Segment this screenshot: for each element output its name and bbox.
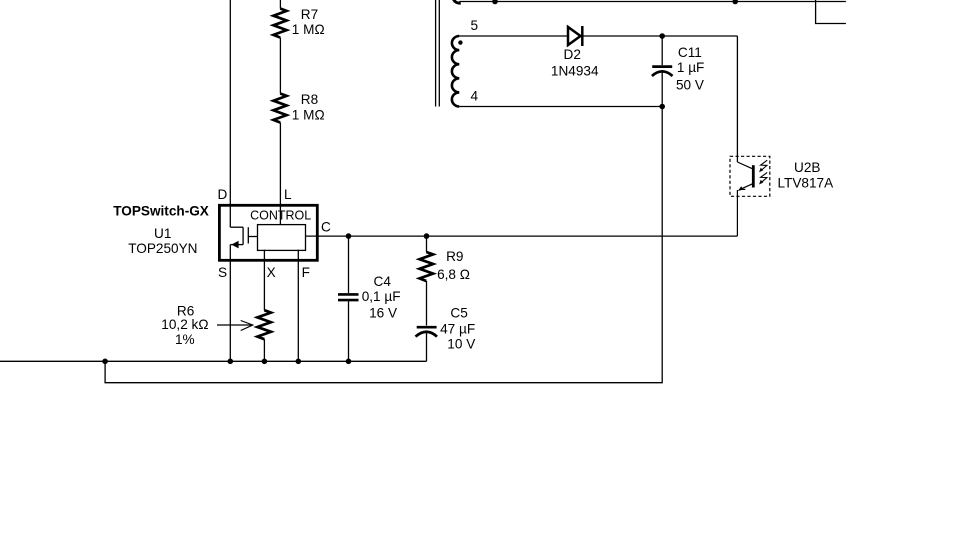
svg-text:X: X [267, 265, 276, 280]
svg-text:C11: C11 [678, 45, 702, 60]
svg-text:C5: C5 [450, 305, 467, 320]
node junction S bottom [228, 359, 234, 365]
node junction R9 top [424, 233, 430, 239]
wire pin4 [459, 106, 662, 108]
svg-text:1 MΩ: 1 MΩ [292, 22, 325, 37]
node junction C11 bottom [659, 104, 665, 110]
wire bottom rail [0, 360, 427, 362]
node junction C4 bottom [346, 359, 352, 365]
svg-text:F: F [302, 265, 310, 280]
svg-text:TOPSwitch-GX: TOPSwitch-GX [113, 203, 209, 218]
control block [258, 225, 306, 251]
wire between R7 and R8 [279, 38, 281, 94]
svg-text:1%: 1% [175, 332, 195, 347]
transformer phase dot [458, 40, 462, 44]
resistor R9 [426, 236, 428, 252]
svg-text:50 V: 50 V [676, 77, 704, 92]
capacitor C11 [661, 36, 663, 65]
svg-text:R8: R8 [301, 92, 318, 107]
capacitor C5 [417, 326, 437, 329]
node junction on top rail (left) [492, 0, 498, 4]
svg-text:1 MΩ: 1 MΩ [292, 108, 325, 123]
svg-text:16 V: 16 V [369, 305, 397, 320]
svg-text:D2: D2 [564, 47, 581, 62]
wire R8 to L pin [279, 123, 281, 225]
MOSFET inside U1 [230, 226, 243, 228]
svg-text:LTV817A: LTV817A [778, 175, 835, 190]
svg-text:1 µF: 1 µF [677, 60, 704, 75]
MOSFET source arrow [231, 241, 238, 249]
light arrow 1 [761, 160, 768, 171]
svg-text:4: 4 [471, 88, 479, 103]
svg-text:U1: U1 [154, 226, 171, 241]
resistor R7 [273, 9, 286, 38]
wire D2 cathode to opto collector corner [584, 35, 738, 37]
node junction C11 top [659, 33, 665, 39]
svg-text:L: L [284, 187, 292, 202]
optocoupler U2B [730, 156, 770, 236]
svg-text:TOP250YN: TOP250YN [128, 241, 197, 256]
svg-text:U2B: U2B [794, 160, 820, 175]
node junction on top rail (right) [732, 0, 738, 4]
transformer T1 upper winding (cropped arc) [454, 0, 461, 3]
resistor R6 [257, 310, 271, 339]
wire return: C11 bottom down, left, up to bottom rail [105, 107, 662, 383]
svg-text:S: S [218, 265, 227, 280]
wire pin5 to diode D2 anode [459, 35, 568, 37]
wire F pin down [297, 250, 299, 361]
diode D2 [568, 26, 582, 46]
svg-text:R7: R7 [301, 7, 318, 22]
resistor R8 [273, 94, 286, 123]
svg-text:10 V: 10 V [447, 337, 475, 352]
transformer T1 bias winding [452, 36, 459, 107]
node junction F bottom [296, 359, 302, 365]
svg-text:CONTROL: CONTROL [250, 209, 311, 223]
svg-text:0,1 µF: 0,1 µF [362, 289, 401, 304]
node junction R6 bottom [262, 359, 268, 365]
transformer T1 core [435, 0, 437, 107]
IC U1 TOPSwitch box [219, 205, 317, 260]
wire top-right step [816, 0, 846, 24]
wire S pin down [229, 245, 231, 362]
wire D pin [229, 0, 231, 227]
svg-text:47 µF: 47 µF [440, 322, 475, 337]
node junction bottom-left [102, 359, 108, 365]
svg-text:C: C [321, 220, 331, 235]
svg-text:10,2 kΩ: 10,2 kΩ [161, 317, 208, 332]
svg-text:5: 5 [471, 18, 479, 33]
svg-text:C4: C4 [374, 274, 392, 289]
wire L pin chain [279, 0, 281, 9]
wire X pin down to R6 [263, 250, 265, 310]
svg-text:D: D [218, 187, 228, 202]
svg-text:R9: R9 [446, 249, 463, 264]
wire opto collector [736, 36, 738, 162]
wire C pin rail [306, 235, 738, 237]
wire top rail [459, 1, 846, 3]
svg-text:1N4934: 1N4934 [551, 64, 599, 79]
capacitor C4 [348, 236, 350, 293]
node junction C4 top [346, 233, 352, 239]
svg-text:6,8 Ω: 6,8 Ω [437, 267, 470, 282]
light arrow 2 [761, 172, 768, 183]
